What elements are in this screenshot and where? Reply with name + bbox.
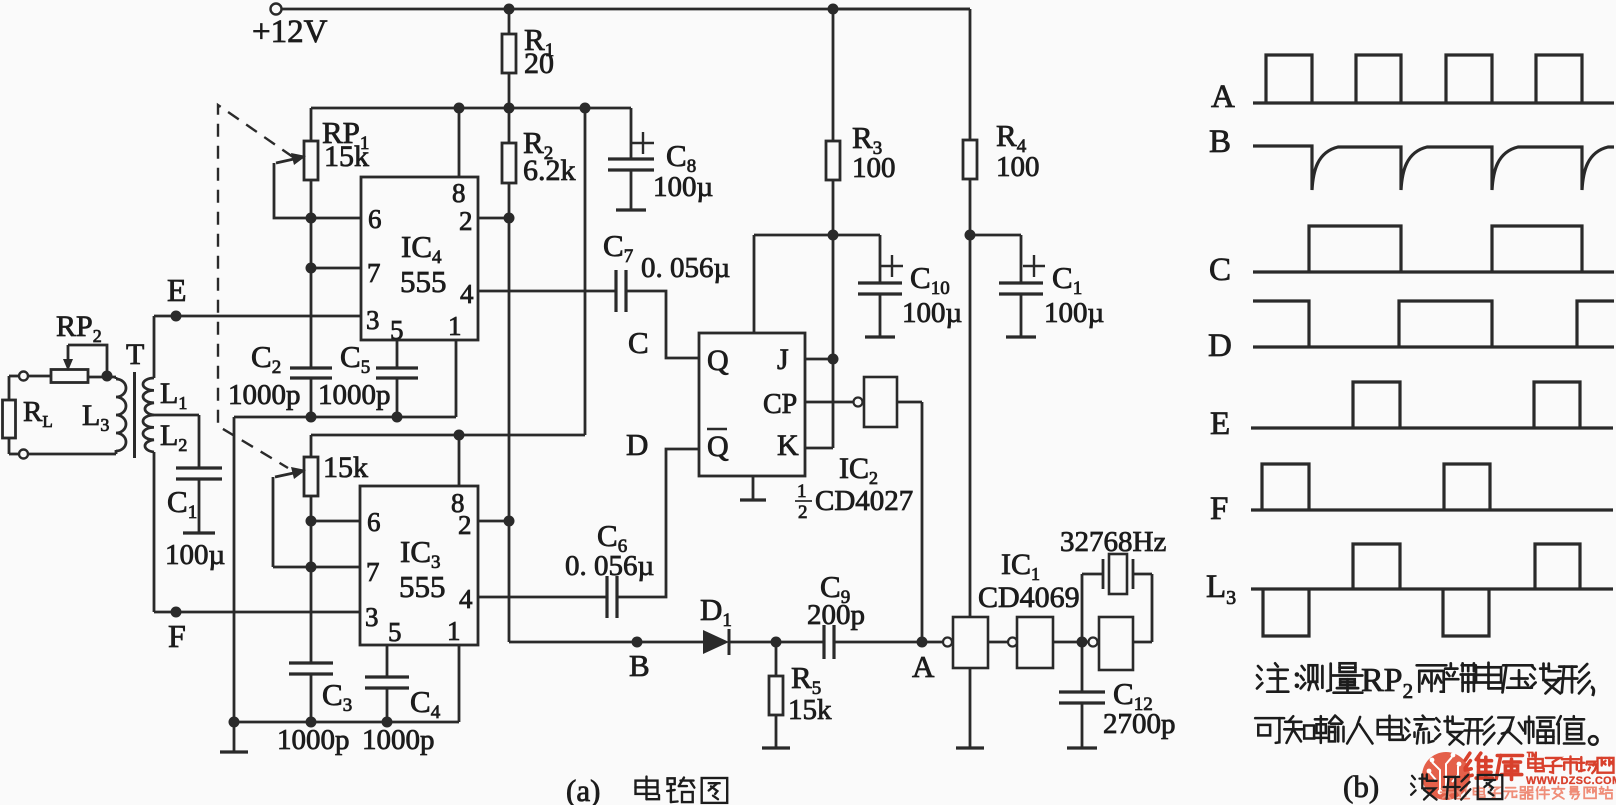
wire CP inverter output down to node A [921,402,924,642]
node B [629,637,650,684]
svg-text:C5: C5 [340,339,370,378]
wire RP2 right to L3 top [88,377,116,379]
wire inv2 to inv3 [1053,641,1088,644]
resistor R5 [762,642,832,748]
wire C10 rail [754,234,880,237]
svg-text:1000p: 1000p [362,724,435,756]
waveform C label [1209,252,1231,288]
caption (a) circuit diagram [566,773,727,805]
wire C9 to node A [834,641,943,644]
svg-text:D: D [1208,328,1232,364]
wire IC4 pin8 to VCC [458,108,461,177]
svg-text:CD4027: CD4027 [815,485,913,517]
power terminal +12V [252,4,328,51]
potentiometer RP2 [51,310,107,383]
junction C5 / gnd rail [392,412,403,423]
waveform L3 trace [1251,544,1613,636]
junction VCC rail / R2 [504,103,515,114]
svg-text:(b): (b) [1343,769,1379,804]
svg-text:IC1: IC1 [1001,548,1040,584]
wire IC4 pin3 node E line [154,315,361,318]
capacitor C4 [362,645,441,756]
label IC2 [839,452,878,488]
svg-text:K: K [777,429,799,462]
svg-text:C7: C7 [603,228,633,267]
resistor RL [3,396,53,438]
wire R2 column down to node B rail [508,108,511,641]
svg-text:0. 056µ: 0. 056µ [641,252,730,284]
junction C2 / gnd rail [306,412,317,423]
junction R3 / C10 rail [828,230,839,241]
svg-text:7: 7 [367,258,381,288]
wire IC4 pin7 [311,267,361,270]
capacitor C8 [608,108,713,210]
diode D1 [700,592,732,655]
junction IC3 pin2 / R2 column [504,516,515,527]
wire RL bottom [9,438,19,454]
crystal 32768Hz [1060,526,1166,642]
capacitor C9 [807,569,865,659]
waveform B trace [1253,146,1614,190]
svg-text:1: 1 [448,311,462,341]
wire IC2 top pin [753,235,756,333]
wire top +12V rail [281,8,970,11]
ground inverter 1 [956,668,984,748]
waveform C trace [1253,226,1614,272]
wire R4 column down [969,235,972,617]
waveform F trace [1251,464,1613,510]
node A [912,637,935,685]
label IC1 [1001,548,1040,584]
resistor R4 [833,9,1040,235]
svg-text:(a): (a) [566,773,600,805]
svg-text:2: 2 [798,502,808,523]
svg-text:5: 5 [388,617,402,647]
svg-text:RL: RL [23,396,53,431]
wire C1 rail [970,234,1021,237]
svg-text:20: 20 [524,47,554,80]
svg-text:IC4: IC4 [401,229,442,268]
svg-text:15k: 15k [323,451,368,484]
svg-text:D: D [626,427,648,462]
potentiometer 15k (IC3) [273,435,368,567]
wire IC2 J [805,358,833,361]
wire inv3 output [1133,641,1152,644]
svg-text:1: 1 [797,481,807,502]
waveform A label [1211,79,1235,115]
svg-text:WWW.DZSC.COM: WWW.DZSC.COM [1526,775,1616,787]
junction R5 / line [771,637,782,648]
wire L2 to F vertical [153,452,156,612]
capacitor C1 (filter) [999,235,1104,337]
note text line 2 [1255,716,1597,745]
wire lower to L3 bottom [28,450,116,454]
svg-text:+12V: +12V [252,14,328,50]
resistor R3 [826,9,896,359]
svg-text:8: 8 [452,178,466,208]
capacitor C3 [277,663,352,756]
transformer T core [126,338,144,458]
svg-text:6: 6 [368,204,382,234]
waveform L3 label [1206,569,1236,609]
wire ground rail under IC4 [234,340,456,417]
inverter gate 3 IC1 [1089,617,1134,670]
wire IC2 K [805,359,833,448]
svg-text:4: 4 [460,279,474,309]
ground bottom-left [220,722,248,752]
svg-text:6: 6 [367,507,381,537]
wire IC3 pin2 [478,520,509,523]
svg-text:100µ: 100µ [653,171,713,203]
node C label [628,325,649,360]
note text line 1 [1257,662,1594,703]
svg-text:C4: C4 [410,684,441,723]
svg-text:100µ: 100µ [1044,297,1104,329]
op-amp IC3 555 box [360,486,478,647]
svg-text:200p: 200p [807,599,865,631]
junction top rail / R3 [828,4,839,15]
svg-text:2: 2 [459,206,473,236]
wire RL top [9,376,51,400]
svg-text:C3: C3 [322,677,352,716]
wire ground rail under IC3 [234,645,459,722]
label CD4069 [978,581,1080,614]
wire IC3 pin7 [273,566,360,569]
ground IC2 [740,476,766,500]
waveform E trace [1251,382,1613,428]
junction VCC rail / IC4 pin8 [454,103,465,114]
svg-text:L3: L3 [1206,569,1236,609]
svg-text:0. 056µ: 0. 056µ [565,550,654,582]
svg-text:C: C [1209,252,1231,288]
svg-text:E: E [167,272,187,308]
label 1/2 CD4027 [795,481,913,523]
svg-text:IC3: IC3 [400,534,441,573]
svg-text:C2: C2 [251,339,281,378]
node F [168,607,186,655]
watermark logo dzsc [1422,752,1616,800]
waveform B label [1209,124,1231,160]
dashed gang coupling RP1-15k [218,105,293,468]
wire IC3 pin6 [311,520,360,523]
svg-text:15k: 15k [324,140,369,173]
svg-text:7: 7 [366,557,380,587]
junction RP2 / L3 wire [102,371,113,382]
op-amp IC4 555 box [361,177,478,345]
junction crystal node [1077,637,1088,648]
svg-text:A: A [912,649,935,684]
node D label [626,427,648,462]
junction J / R3 column [828,354,839,365]
svg-text:1000p: 1000p [318,379,391,411]
wire IC3 pin4 to C6 [478,596,607,599]
inverter gate IC2 clock (CD4069) [805,377,922,427]
capacitor C5 [318,339,418,417]
svg-text:2: 2 [458,510,472,540]
svg-text:15k: 15k [788,694,832,726]
svg-text:T: T [126,338,144,371]
junction top rail / R1 [504,4,515,15]
wire IC4 pin6 [311,217,361,220]
svg-text:F: F [168,618,186,654]
svg-text:IC2: IC2 [839,452,878,488]
svg-text:B: B [629,648,650,683]
resistor R2 [502,125,576,187]
resistor R1 [502,9,554,108]
terminal circle lower [19,450,28,459]
junction VCC rail / C8 branch [580,103,591,114]
svg-text:C1: C1 [1052,260,1082,299]
svg-text:3: 3 [366,305,380,335]
capacitor C10 [858,235,962,337]
svg-text:A: A [1211,79,1235,115]
junction C3 / bottom rail [306,717,317,728]
capacitor C2 [228,339,332,417]
inductor L2 winding [143,415,187,455]
svg-text:CD4069: CD4069 [978,581,1080,614]
wire VCC vertical feed [584,108,587,435]
waveform D trace [1253,301,1614,347]
svg-text:RP2: RP2 [56,310,102,346]
wire long ground drop left [233,417,236,722]
capacitor C1 (tank) [165,468,225,571]
svg-text:2700p: 2700p [1103,708,1176,740]
waveform A trace [1253,55,1614,103]
wire 15k column to C3 [310,521,313,663]
junction IC4 pin2 / R2 column [504,213,515,224]
svg-text:J: J [777,343,789,376]
junction RP1 column / pin7 [306,263,317,274]
inductor L1 winding [143,377,187,415]
svg-text:3: 3 [365,602,379,632]
junction VCC rail IC3 / pin8 [454,430,465,441]
svg-text:32768Hz: 32768Hz [1060,526,1166,558]
svg-text:C1: C1 [167,484,197,523]
inductor L3 winding [82,379,126,451]
svg-text:4: 4 [459,584,473,614]
junction RP1 wiper / pin6 [306,213,317,224]
svg-text:L1: L1 [160,377,187,413]
svg-text:RP2: RP2 [1361,662,1413,703]
svg-text:C10: C10 [910,260,950,299]
svg-text:555: 555 [399,569,446,604]
svg-text:100µ: 100µ [165,539,225,571]
inverter gate 2 IC1 [1008,617,1053,668]
wire C6 to IC2 Qbar [617,449,699,597]
wire VCC rail above IC4 [311,107,631,110]
svg-text:D1: D1 [700,592,732,631]
svg-text:E: E [1210,406,1230,442]
node E [167,272,187,322]
svg-text:TM: TM [1527,752,1537,759]
svg-text:C: C [628,325,649,360]
wire transformer tap to C1 [154,415,199,468]
svg-text:1000p: 1000p [277,724,350,756]
wire E vertical to L1 [153,316,156,378]
wire IC3 pin3 node F line [154,611,360,614]
junction C4 / bottom rail [382,717,393,728]
svg-text:CP: CP [763,389,797,420]
capacitor C6 [565,518,654,618]
wire VCC rail above IC3 [311,434,585,437]
svg-text:1000p: 1000p [228,379,301,411]
junction gnd drop / bottom rail [229,717,240,728]
inverter gate 1 IC1 [943,617,988,668]
svg-text:6.2k: 6.2k [523,154,576,187]
svg-text:100: 100 [852,152,896,184]
waveform E label [1210,406,1230,442]
svg-text:555: 555 [400,264,447,299]
wire inv1 to inv2 [988,641,1008,644]
caption (b) waveform diagram [1343,769,1502,804]
wire D1 to C9 [729,641,824,644]
svg-text:L3: L3 [82,399,109,435]
svg-text:1: 1 [447,616,461,646]
potentiometer RP1 [274,108,369,218]
svg-text:F: F [1210,491,1228,527]
terminal circle upper [19,372,28,381]
wire IC4 pin2 [478,217,509,220]
svg-text:Q: Q [707,344,729,377]
wire RP1 column to C2 [310,218,313,368]
junction 15k / pin6 [306,516,317,527]
svg-text:B: B [1209,124,1231,160]
wire IC4 pin4 to C7 [478,290,616,293]
waveform F label [1210,491,1228,527]
svg-text:100µ: 100µ [902,297,962,329]
wire C7 to IC2 Q [626,291,699,358]
wire IC3 pin8 to VCC [458,435,461,486]
svg-text:L2: L2 [160,419,187,455]
waveform D label [1208,328,1232,364]
capacitor C12 [1059,642,1176,748]
svg-text:Q: Q [707,430,729,463]
svg-text:100: 100 [996,151,1040,183]
junction 15k column / pin7 [306,562,317,573]
capacitor C7 [603,228,730,312]
flip-flop IC2 CD4027 box [699,333,805,476]
wire node B line [509,641,703,642]
junction R4 / C1 rail [965,230,976,241]
